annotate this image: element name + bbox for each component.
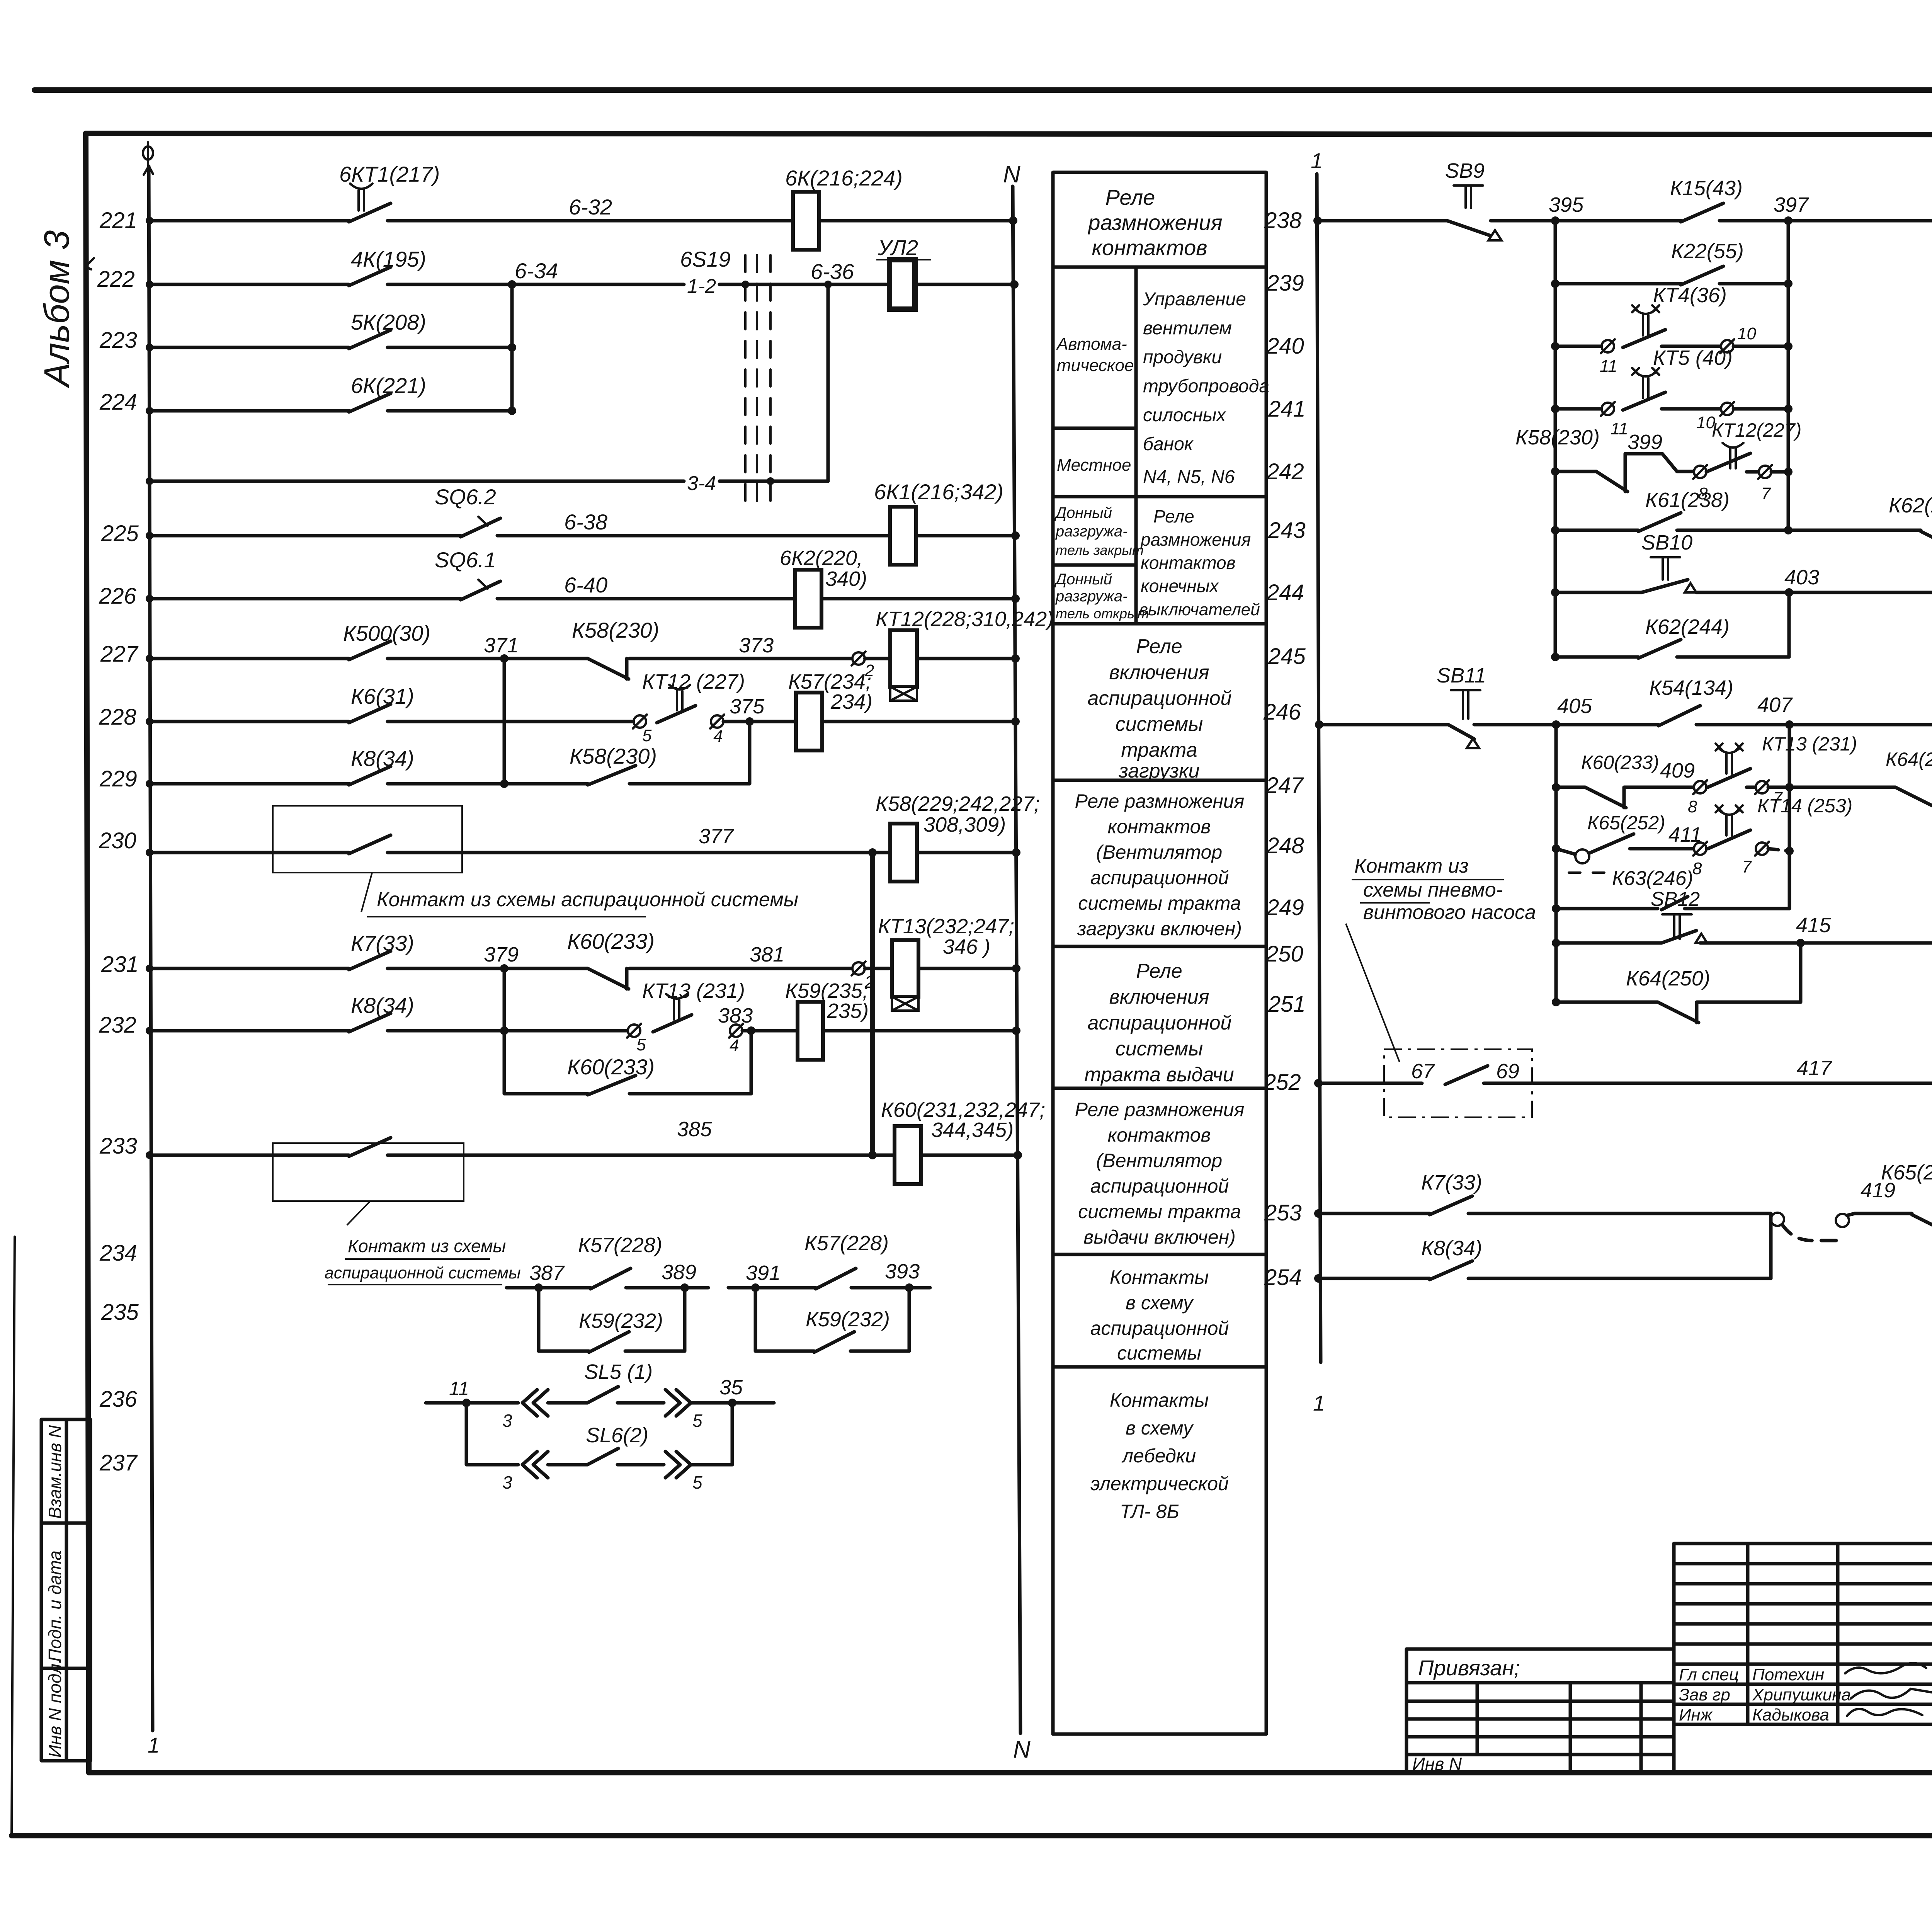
svg-text:аспирационной: аспирационной <box>1090 1175 1229 1197</box>
page outer top border <box>34 87 1932 93</box>
label КТ13 (231) <box>642 979 745 1002</box>
push button SB12 <box>1662 914 1707 943</box>
label К500(30) <box>343 621 430 645</box>
wire row 236 mid-left <box>548 1401 587 1405</box>
page outer left border (bottom part) <box>12 1237 15 1836</box>
svg-text:К500(30): К500(30) <box>343 621 430 645</box>
pin mark 10 (row 240) <box>1720 324 1756 353</box>
N label top (left ladder) <box>1003 161 1020 188</box>
svg-text:системы тракта: системы тракта <box>1078 892 1241 914</box>
annotation dashed box row 252 <box>1384 1049 1532 1117</box>
svg-text:Контакты: Контакты <box>1110 1266 1209 1288</box>
label SB11 <box>1437 664 1486 687</box>
node label 399 <box>1628 431 1662 454</box>
row number 254 <box>1264 1265 1302 1290</box>
contact 4К <box>349 267 391 286</box>
svg-text:405: 405 <box>1557 694 1592 718</box>
junction bus 222-224 <box>510 284 514 411</box>
contact blade SL5 <box>587 1387 618 1403</box>
svg-text:контактов: контактов <box>1141 553 1236 573</box>
svg-text:в схему: в схему <box>1126 1417 1194 1439</box>
wire row 222 to coil <box>828 283 889 286</box>
svg-text:схемы пневмо-: схемы пневмо- <box>1363 879 1503 901</box>
contact К500 <box>349 641 391 660</box>
wire row 229 left <box>146 780 349 788</box>
node label 407 <box>1757 693 1793 716</box>
middle table cell: Управление вентилем продувки <box>1143 289 1269 487</box>
svg-text:Донный: Донный <box>1054 571 1112 588</box>
svg-text:Зав гр: Зав гр <box>1679 1685 1730 1704</box>
svg-text:КТ5 (40): КТ5 (40) <box>1653 346 1733 369</box>
svg-text:223: 223 <box>99 328 137 353</box>
node label 389 <box>662 1261 696 1284</box>
middle table frame <box>1053 172 1266 1734</box>
svg-text:КТ13(232;247;: КТ13(232;247; <box>878 915 1014 938</box>
label К65(252) row253 <box>1881 1161 1932 1184</box>
callout leader row 230 <box>361 873 372 912</box>
svg-text:N: N <box>1013 1736 1031 1763</box>
wire row 247 to collector <box>1768 783 1794 791</box>
annotation box row 230 <box>273 806 462 873</box>
svg-text:235: 235 <box>101 1300 139 1325</box>
svg-text:К22(55): К22(55) <box>1671 240 1744 263</box>
svg-text:387: 387 <box>529 1261 565 1285</box>
svg-text:в схему: в схему <box>1126 1292 1194 1314</box>
contact (aspiration system) row 230 <box>349 835 391 854</box>
node label 387 <box>529 1261 565 1285</box>
svg-text:Донный: Донный <box>1054 504 1112 521</box>
wire row 240 right <box>1733 342 1793 351</box>
svg-text:Хрипушкина: Хрипушкина <box>1752 1685 1851 1704</box>
svg-text:238: 238 <box>1264 208 1302 233</box>
row number 248 <box>1266 833 1304 858</box>
contact К62(244) row243 <box>1921 530 1932 552</box>
svg-text:7: 7 <box>1742 858 1752 876</box>
svg-text:К61(238): К61(238) <box>1645 488 1730 512</box>
contactor coil УЛ2 (bold) <box>889 260 915 309</box>
svg-text:3-4: 3-4 <box>687 472 716 495</box>
label К60(233) branch <box>567 1055 655 1079</box>
row number 242 <box>1266 459 1304 484</box>
middle table cell: Реле размножения контактов (вентилятор тракта выдачи включен) <box>1075 1099 1245 1248</box>
wire row 225 left <box>146 532 461 539</box>
wire row 236 right <box>691 1399 774 1407</box>
svg-text:(Вентилятор: (Вентилятор <box>1096 841 1222 863</box>
svg-text:системы: системы <box>1116 1038 1203 1060</box>
svg-text:Подп. и дата: Подп. и дата <box>45 1550 65 1662</box>
wire pair B top right <box>851 1283 930 1292</box>
wire row 248 to pin 8 <box>1664 847 1694 851</box>
wire row 227 to N <box>865 654 1020 663</box>
row number 247 <box>1265 773 1304 798</box>
label КТ12(227) row242 <box>1712 419 1801 441</box>
wire row 231 middle <box>629 967 852 970</box>
label КТ12(228;310,242) <box>876 608 1054 631</box>
svg-text:Реле: Реле <box>1153 506 1194 526</box>
time contact КТ4 <box>1623 305 1665 347</box>
node label 419 <box>1861 1179 1895 1202</box>
contact К65 (row 253) <box>1912 1213 1932 1235</box>
wire row 253 middle <box>1855 1212 1912 1215</box>
svg-text:включения: включения <box>1109 986 1209 1008</box>
label SB10 <box>1641 531 1692 554</box>
external contact 67-69 (row 252) <box>1411 1060 1519 1084</box>
svg-text:размножения: размножения <box>1140 529 1251 550</box>
svg-text:SB9: SB9 <box>1445 159 1485 182</box>
wire row 237 mid-left <box>548 1463 587 1467</box>
wire row 236 middle <box>617 1401 664 1405</box>
svg-text:229: 229 <box>99 766 137 791</box>
contact К54 <box>1658 706 1700 726</box>
svg-text:375: 375 <box>730 695 765 718</box>
svg-text:К57(228): К57(228) <box>804 1232 889 1255</box>
phase rail 1 (right) <box>1317 174 1321 1362</box>
label К60(231,232,247;344,345) <box>881 1098 1045 1142</box>
row number 244 <box>1266 580 1304 605</box>
svg-text:Автома-: Автома- <box>1056 335 1127 354</box>
svg-text:Контакты: Контакты <box>1110 1389 1209 1411</box>
row number 235 <box>101 1300 139 1325</box>
svg-text:SQ6.1: SQ6.1 <box>435 548 496 572</box>
time contact КТ5 <box>1623 368 1665 410</box>
callout leader to row 252 box <box>1346 924 1400 1062</box>
row number 241 <box>1268 397 1306 422</box>
svg-text:К58(230): К58(230) <box>1515 426 1600 449</box>
svg-text:239: 239 <box>1266 271 1304 296</box>
wire row 230 <box>146 849 349 856</box>
wire row 229 middle <box>388 779 588 788</box>
node label 391 <box>746 1261 781 1285</box>
wire row 223 to bus <box>388 343 516 352</box>
wire row 246 middle <box>1474 720 1658 729</box>
auxiliary wire 3-4 below 224 <box>146 477 684 485</box>
svg-text:241: 241 <box>1268 397 1306 422</box>
svg-text:К58(230): К58(230) <box>570 744 657 768</box>
feeder riser rows 239-245 <box>1554 221 1557 657</box>
middle table cell: Местное <box>1057 456 1131 475</box>
svg-text:6-38: 6-38 <box>564 510 607 534</box>
contact К7 (row 231) <box>349 951 391 970</box>
svg-text:К58(230): К58(230) <box>572 618 659 642</box>
svg-text:225: 225 <box>101 521 139 546</box>
wire row 227 left <box>146 655 349 662</box>
svg-text:К6(31): К6(31) <box>351 684 414 708</box>
svg-text:Привязан;: Привязан; <box>1418 1656 1520 1680</box>
wire row 231 left <box>146 965 349 972</box>
svg-text:381: 381 <box>750 943 784 966</box>
svg-text:КТ14 (253): КТ14 (253) <box>1757 795 1852 817</box>
row number 238 <box>1264 208 1302 233</box>
wire row 249 to collector <box>1723 907 1789 910</box>
row number 227 <box>100 642 139 667</box>
wire row 227 middle <box>629 657 852 660</box>
middle table cell: Донный разгружатель закрыт <box>1054 504 1144 558</box>
stamp text Взам.инв N <box>45 1425 65 1519</box>
middle table cell: Донный разгружатель открыт <box>1054 571 1149 621</box>
svg-text:245: 245 <box>1268 644 1306 669</box>
svg-text:6-32: 6-32 <box>569 195 612 219</box>
contact К64(250) row247 blade below <box>1789 787 1932 808</box>
label УЛ2 <box>876 235 931 260</box>
wire row 228 to N <box>822 717 1020 726</box>
wire row 253 left <box>1314 1209 1430 1218</box>
inline terminal label 3-4 <box>687 472 716 495</box>
svg-text:6К1(216;342): 6К1(216;342) <box>874 480 1003 504</box>
lower revision table <box>1406 1683 1674 1773</box>
wire row 233 to N <box>921 1151 1022 1159</box>
net label 6-38 <box>564 510 607 534</box>
svg-text:253: 253 <box>1264 1200 1302 1225</box>
svg-text:1: 1 <box>148 1733 160 1757</box>
wire row 243 middle <box>1677 526 1921 534</box>
middle table cell: Реле размножения контактов (вентилятор тракта загрузки включен) <box>1075 790 1245 939</box>
svg-text:5: 5 <box>642 726 652 745</box>
wire row 248 left <box>1552 844 1575 854</box>
time contact КТ14 (row 248) <box>1708 805 1750 849</box>
phase symbol at rail top <box>143 142 153 165</box>
connector chevrons right (row 236) <box>665 1390 691 1416</box>
label КТ12 (227) <box>642 670 745 693</box>
label КТ5 (40) <box>1653 346 1733 369</box>
wire row 245 <box>1551 653 1638 661</box>
pair B bottom branch with К59 contact <box>755 1288 909 1352</box>
svg-text:415: 415 <box>1796 914 1831 937</box>
svg-text:аспирационной: аспирационной <box>1090 1317 1229 1339</box>
row number 236 <box>99 1387 138 1412</box>
annotation box row 233 <box>273 1143 464 1201</box>
svg-text:электрической: электрической <box>1090 1473 1229 1494</box>
row number 234 <box>99 1241 137 1266</box>
svg-text:Реле размножения: Реле размножения <box>1075 790 1245 812</box>
svg-text:6К(216;224): 6К(216;224) <box>785 166 903 190</box>
pin mark 5 (row 228) <box>633 715 652 745</box>
label КТ13(232;247;346) <box>878 915 1014 958</box>
middle table cell: Контакты в схему лебедки ТЛ-8Б <box>1090 1389 1229 1522</box>
svg-text:(Вентилятор: (Вентилятор <box>1096 1150 1222 1171</box>
svg-text:250: 250 <box>1265 941 1303 967</box>
label SL5 (1) <box>584 1360 653 1384</box>
pin label 3 (row 236) <box>502 1411 512 1431</box>
node label 383 <box>718 1004 753 1027</box>
wire row 242 right <box>1747 470 1759 474</box>
node label 417 <box>1797 1057 1832 1080</box>
label К59(235;235) <box>785 979 869 1023</box>
contact К57 (pair A top) <box>590 1268 631 1289</box>
label К57(228) pair B <box>804 1232 889 1255</box>
svg-text:247: 247 <box>1265 773 1304 798</box>
contact pair B node 391 <box>728 1283 816 1292</box>
pin mark 5 (row 232) <box>627 1024 646 1054</box>
svg-text:Контакт из схемы аспирационной: Контакт из схемы аспирационной системы <box>377 888 798 911</box>
svg-text:222: 222 <box>97 267 135 292</box>
svg-text:389: 389 <box>662 1261 696 1284</box>
svg-text:К54(134): К54(134) <box>1649 676 1733 699</box>
svg-text:224: 224 <box>99 390 137 415</box>
svg-text:аспирационной: аспирационной <box>1088 1012 1232 1034</box>
svg-text:5К(208): 5К(208) <box>351 310 426 334</box>
contact К6 <box>349 704 391 723</box>
svg-text:Контакт из: Контакт из <box>1354 855 1469 877</box>
label КТ14 (253) <box>1757 795 1852 817</box>
label К58(230) row242 <box>1515 426 1600 449</box>
svg-text:продувки: продувки <box>1143 347 1222 368</box>
wire row 250 right <box>1700 939 1932 947</box>
wire row 247 left <box>1552 783 1585 791</box>
wire row 254 right riser <box>1468 1213 1771 1278</box>
svg-text:234): 234) <box>830 690 872 713</box>
row number 249 <box>1266 895 1304 920</box>
pin label 5 (row 236) <box>692 1411 702 1431</box>
middle table cell: Реле размножения контактов <box>1087 185 1222 260</box>
svg-text:К62(244): К62(244) <box>1645 615 1730 638</box>
svg-text:232: 232 <box>99 1013 136 1038</box>
pin mark 8 (row 242) <box>1693 465 1708 503</box>
svg-text:Реле: Реле <box>1105 185 1155 209</box>
label К65(252) row248 <box>1587 812 1665 834</box>
svg-text:237: 237 <box>99 1450 138 1476</box>
middle table cell: Реле размножения контактов конечных выключателей <box>1139 506 1260 619</box>
svg-text:6КТ1(217): 6КТ1(217) <box>339 162 440 186</box>
svg-text:N: N <box>1003 161 1020 188</box>
svg-text:Реле: Реле <box>1136 960 1182 982</box>
contact К60 (row 231) <box>588 968 629 989</box>
svg-text:248: 248 <box>1266 833 1304 858</box>
wire row 232 left <box>146 1027 349 1035</box>
wire row 223 <box>146 344 349 351</box>
wire row 225 middle <box>497 534 890 538</box>
wire row 239 <box>1551 279 1681 288</box>
svg-text:К8(34): К8(34) <box>1421 1237 1482 1260</box>
time contact КТ13 (row 232) <box>653 994 692 1032</box>
svg-text:385: 385 <box>677 1118 712 1141</box>
N rail (left) <box>1013 186 1020 1733</box>
svg-text:397: 397 <box>1774 193 1809 216</box>
node label 371 <box>484 634 519 657</box>
wire row 240 <box>1551 342 1602 351</box>
wire row 232 to N <box>823 1026 1020 1035</box>
contact К15 <box>1681 203 1723 222</box>
svg-text:аспирационной: аспирационной <box>1090 867 1229 888</box>
label К64(250) <box>1886 749 1932 770</box>
relay coil 6К2 <box>795 570 821 628</box>
svg-text:417: 417 <box>1797 1057 1832 1080</box>
changeover contact with circles (row 253) <box>1771 1213 1855 1241</box>
pin mark 2 (row 227) <box>852 652 874 680</box>
pin mark 7 (row 247) <box>1755 780 1783 808</box>
svg-text:344,345): 344,345) <box>931 1118 1014 1142</box>
pin mark 4 (row 228) <box>710 715 724 746</box>
label К7(33) row253 <box>1421 1171 1482 1194</box>
row number 252 <box>1263 1070 1301 1095</box>
wire row 221 middle <box>388 219 793 223</box>
svg-text:системы: системы <box>1117 1342 1201 1364</box>
svg-text:308,309): 308,309) <box>923 813 1006 836</box>
svg-text:тракта выдачи: тракта выдачи <box>1084 1064 1234 1086</box>
svg-text:К59(235;: К59(235; <box>785 979 868 1002</box>
svg-text:240: 240 <box>1266 334 1304 359</box>
label SB9 <box>1445 159 1485 182</box>
contact К57 (pair B top) <box>816 1268 856 1289</box>
label 6К2(220,340) <box>780 546 867 591</box>
label SQ6.1 <box>435 548 496 572</box>
svg-text:6S19: 6S19 <box>680 247 731 271</box>
label SL6(2) <box>586 1424 648 1447</box>
svg-text:К59(232): К59(232) <box>806 1308 890 1331</box>
contact 5К <box>349 330 391 349</box>
svg-text:8: 8 <box>1692 859 1702 878</box>
signature row Зав гр Хрипушкина <box>1679 1685 1932 1704</box>
relay coil 6К <box>793 192 819 250</box>
label К60(233) row247 <box>1581 752 1659 773</box>
push button SB10 <box>1641 557 1696 592</box>
net label 6-34 <box>515 259 558 283</box>
svg-text:разгружа-: разгружа- <box>1055 523 1128 540</box>
riser row 229 to node 375 <box>748 722 752 784</box>
pin mark 7 (row 242) <box>1758 465 1772 503</box>
label SB12 <box>1651 888 1700 910</box>
stamp text Инв N подл. <box>45 1659 65 1758</box>
contact К60 (branch) <box>588 1076 636 1095</box>
label К15(43) <box>1670 177 1743 200</box>
album label: Альбом 3 (rotated) <box>37 230 77 388</box>
svg-text:69: 69 <box>1496 1060 1519 1083</box>
wire row 228 left <box>146 718 349 725</box>
svg-text:3: 3 <box>502 1411 512 1431</box>
rail bottom label 1 <box>148 1733 160 1757</box>
svg-text:К64(250): К64(250) <box>1626 967 1710 990</box>
node label 373 <box>739 634 774 657</box>
svg-text:SB11: SB11 <box>1437 664 1486 687</box>
label К60(233) row231 <box>567 929 655 953</box>
svg-text:4К(195): 4К(195) <box>351 247 426 271</box>
wire row 221 left <box>146 217 349 225</box>
svg-text:Кадыкова: Кадыкова <box>1752 1705 1829 1724</box>
svg-text:11: 11 <box>449 1378 469 1399</box>
wire row 230 middle <box>388 848 890 857</box>
label К8(34) row232 <box>351 993 414 1018</box>
pair A bottom branch with К59 contact <box>539 1288 685 1352</box>
contact К8 (row 254) <box>1430 1261 1472 1280</box>
label К59(232) pair A <box>579 1309 663 1333</box>
svg-text:тическое: тическое <box>1057 356 1134 375</box>
row number 229 <box>99 766 137 791</box>
wire row 251 right riser <box>1723 943 1801 1002</box>
svg-text:ТЛ- 8Б: ТЛ- 8Б <box>1120 1501 1179 1522</box>
label К62(244) row245 <box>1645 615 1730 638</box>
svg-text:249: 249 <box>1266 895 1304 920</box>
wire row 239 right <box>1719 279 1793 288</box>
wire row 241 middle <box>1662 407 1721 411</box>
svg-text:КТ13 (231): КТ13 (231) <box>1762 733 1857 755</box>
svg-text:346 ): 346 ) <box>943 935 990 958</box>
pin mark 8 (row 247) <box>1688 780 1707 816</box>
node label 35 <box>719 1376 743 1399</box>
svg-text:К8(34): К8(34) <box>351 993 414 1018</box>
wire row 238 left <box>1313 216 1447 225</box>
wire row 247 to pin 8 <box>1658 786 1694 789</box>
return riser 3-4 to row 222 <box>827 284 830 481</box>
svg-text:аспирационной: аспирационной <box>1088 687 1232 710</box>
push button SB9 <box>1447 186 1502 240</box>
row number 228 <box>99 705 136 730</box>
wire row 222 to node <box>388 280 684 289</box>
svg-text:силосных: силосных <box>1143 405 1226 425</box>
node label 395 <box>1549 193 1584 216</box>
svg-text:242: 242 <box>1266 459 1304 484</box>
disconnect switch 6S19 (dashed poles) <box>745 255 770 506</box>
svg-text:загрузки: загрузки <box>1119 760 1200 782</box>
row number 231 <box>101 952 139 977</box>
